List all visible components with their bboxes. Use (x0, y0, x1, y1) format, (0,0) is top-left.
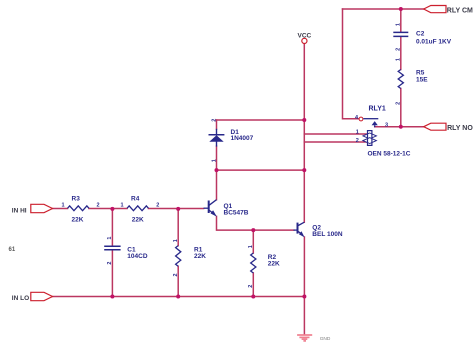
svg-text:61: 61 (9, 247, 16, 253)
svg-text:104CD: 104CD (127, 253, 148, 260)
svg-text:1: 1 (173, 239, 179, 242)
svg-text:2: 2 (396, 102, 402, 105)
svg-text:1: 1 (396, 23, 402, 26)
svg-text:1: 1 (62, 203, 65, 209)
svg-text:1: 1 (121, 203, 124, 209)
svg-text:IN LO: IN LO (12, 295, 29, 302)
svg-text:1: 1 (211, 159, 217, 162)
svg-text:2: 2 (248, 285, 254, 288)
svg-text:2: 2 (396, 48, 402, 51)
svg-text:1: 1 (107, 237, 113, 240)
svg-text:R4: R4 (131, 195, 140, 202)
svg-text:1: 1 (356, 130, 359, 136)
svg-text:22K: 22K (132, 217, 144, 224)
svg-text:VCC: VCC (298, 33, 312, 40)
svg-text:RLY NO: RLY NO (447, 125, 473, 132)
svg-text:BEL 100N: BEL 100N (312, 231, 343, 238)
svg-text:0.01uF 1KV: 0.01uF 1KV (416, 38, 452, 45)
svg-text:22K: 22K (72, 217, 84, 224)
svg-text:RLY CM: RLY CM (447, 8, 473, 15)
svg-text:IN HI: IN HI (12, 207, 27, 214)
svg-text:GND: GND (320, 336, 331, 342)
svg-text:R3: R3 (72, 195, 81, 202)
svg-text:RLY1: RLY1 (369, 105, 386, 112)
svg-text:2: 2 (211, 119, 217, 122)
svg-text:OEN 58-12-1C: OEN 58-12-1C (368, 151, 411, 158)
svg-text:1N4007: 1N4007 (231, 135, 254, 142)
svg-text:BC547B: BC547B (224, 209, 249, 216)
svg-text:2: 2 (156, 203, 159, 209)
svg-text:R5: R5 (416, 70, 425, 77)
svg-text:2: 2 (356, 138, 359, 144)
svg-text:22K: 22K (268, 260, 280, 267)
svg-text:C2: C2 (416, 31, 425, 38)
svg-text:1: 1 (396, 58, 402, 61)
svg-text:2: 2 (107, 262, 113, 265)
svg-text:1: 1 (248, 245, 254, 248)
svg-text:15E: 15E (416, 77, 428, 84)
svg-text:2: 2 (97, 203, 100, 209)
svg-text:2: 2 (173, 273, 179, 276)
svg-text:3: 3 (385, 123, 388, 129)
svg-text:22K: 22K (194, 253, 206, 260)
